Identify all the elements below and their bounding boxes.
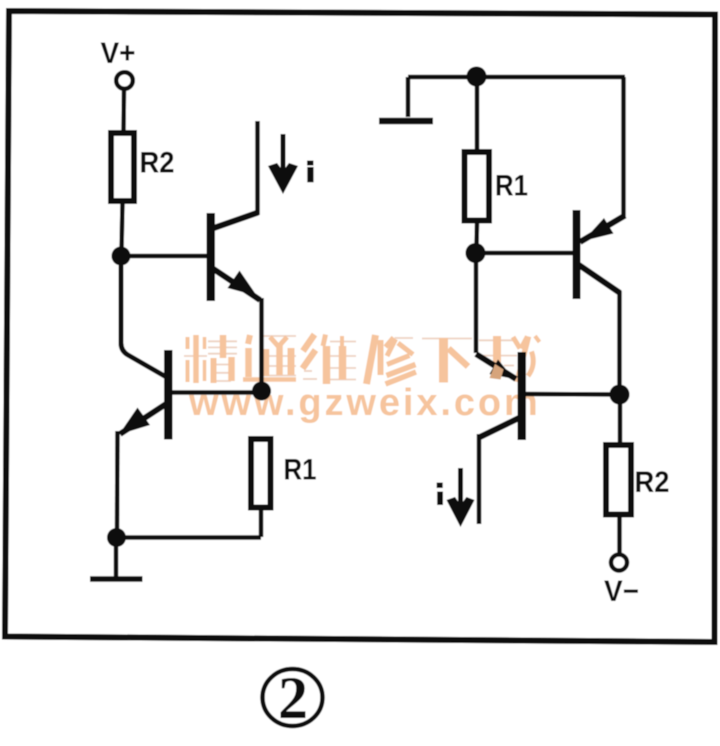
svg-text:V−: V− <box>604 575 639 608</box>
svg-text:R2: R2 <box>140 147 175 180</box>
svg-text:R1: R1 <box>495 170 528 203</box>
svg-text:2: 2 <box>278 665 308 731</box>
svg-text:V+: V+ <box>101 37 136 70</box>
svg-text:www.gzweix.com: www.gzweix.com <box>188 382 541 424</box>
svg-text:R1: R1 <box>284 454 317 487</box>
svg-text:R2: R2 <box>635 466 670 499</box>
